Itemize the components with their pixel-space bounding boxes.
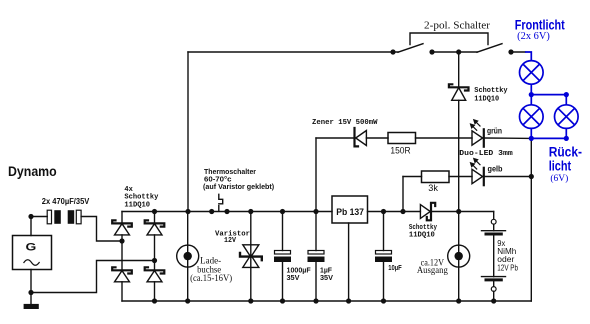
node switch S1a right junction — [429, 49, 434, 54]
svg-text:(auf Varistor geklebt): (auf Varistor geklebt) — [203, 182, 275, 191]
svg-text:2-pol. Schalter: 2-pol. Schalter — [424, 21, 491, 32]
svg-text:G: G — [26, 241, 37, 253]
svg-text:oder: oder — [497, 254, 514, 264]
generator G1 box — [13, 236, 52, 270]
node lamp row1 right junction — [564, 92, 569, 97]
wire bottom rail — [122, 300, 531, 302]
svg-text:35V: 35V — [320, 273, 333, 282]
svg-text:12V: 12V — [224, 237, 236, 245]
battery BT1 cell1 — [482, 230, 506, 232]
node rail thermoswitch left junction — [209, 209, 214, 214]
generator G1 wire bottom — [30, 270, 32, 293]
bridge diode D2 top-right — [145, 212, 165, 271]
schottky D5 cathode bar — [449, 84, 469, 90]
LED D8 gelb arrows — [470, 158, 480, 169]
main rail left section — [122, 211, 332, 213]
svg-text:12V Pb: 12V Pb — [497, 264, 518, 273]
node gnd varistor junction — [248, 298, 253, 303]
svg-text:Dynamo: Dynamo — [8, 164, 57, 179]
wire caps to bridge — [81, 217, 122, 242]
svg-text:(2x 6V): (2x 6V) — [517, 31, 550, 42]
wire switch middle segment — [432, 51, 477, 53]
capacitor C1 plates — [47, 210, 51, 224]
wire zener to R1 — [366, 137, 388, 139]
lamp network blue — [520, 52, 579, 138]
svg-text:3k: 3k — [428, 183, 438, 194]
switch S1 lever b — [477, 44, 502, 53]
bridge diode D3 bottom-left — [112, 267, 132, 301]
capacitor C5 wire bottom — [383, 262, 385, 302]
capacitor C5 10uF wire top — [383, 212, 385, 251]
node rail C3 junction — [280, 209, 285, 214]
battery BT1 lead top — [493, 212, 495, 220]
node lamp row2 left junction — [529, 136, 534, 141]
node rail varistor junction — [248, 209, 253, 214]
wire 3k feed vertical — [402, 177, 404, 212]
svg-text:11DQ10: 11DQ10 — [409, 231, 435, 239]
node switch S1a left junction — [390, 49, 395, 54]
bridge diode D4 bottom-right — [145, 267, 165, 301]
schottky D5 wire down to rail — [458, 100, 460, 211]
svg-text:11DQ10: 11DQ10 — [124, 202, 150, 210]
lamp L3 rear — [555, 105, 579, 129]
node gnd U1 junction — [346, 298, 351, 303]
ground symbol — [24, 304, 39, 309]
capacitor C3 1000uF plates — [275, 251, 291, 255]
node rail bridge plus junction — [152, 209, 157, 214]
switch S1 lever a — [398, 44, 423, 53]
rail Pb137 to diode — [368, 211, 421, 213]
resistor R2 3k body — [422, 171, 450, 183]
generator G1 wire top — [30, 217, 32, 236]
LED D8 gelb triangle — [472, 169, 483, 183]
zener D6 triangle — [356, 131, 367, 146]
svg-text:(6V): (6V) — [550, 173, 568, 184]
wire R1 to LED green — [416, 137, 473, 139]
wire 3k to LED yellow — [449, 176, 472, 178]
svg-text:Zener 15V 500mW: Zener 15V 500mW — [312, 119, 378, 127]
node bridge AC1 junction — [119, 238, 124, 243]
wire 3k feed horizontal — [403, 176, 422, 178]
svg-text:Rück-: Rück- — [549, 145, 582, 160]
wire zener feed vertical — [315, 138, 317, 212]
schottky D5 triangle — [452, 88, 466, 101]
svg-text:Pb 137: Pb 137 — [336, 207, 364, 218]
capacitor C3 wire bottom — [282, 262, 284, 302]
svg-text:Schottky: Schottky — [474, 87, 508, 95]
wire return vertical right — [530, 138, 532, 301]
wire lamp feed — [525, 52, 531, 61]
LED D7 gruen arrows — [470, 120, 480, 131]
svg-text:Duo-LED 3mm: Duo-LED 3mm — [459, 150, 513, 158]
capacitor C3 1000uF wire top — [282, 212, 284, 251]
node rail Ladebuchse junction — [185, 209, 190, 214]
svg-text:Schottky: Schottky — [124, 193, 158, 201]
wire ground rail to bridge — [31, 261, 155, 293]
LED D7 gruen triangle — [472, 131, 483, 145]
svg-text:gelb: gelb — [488, 165, 503, 174]
schottky D9 rail cathode bar — [427, 203, 435, 221]
node gnd bridge junction — [152, 298, 157, 303]
varistor RV1 wire — [250, 212, 252, 302]
capacitor C4 1uF wire top — [315, 212, 317, 251]
node switch diode feed junction — [456, 49, 461, 54]
node rail output junction — [456, 209, 461, 214]
capacitors C1 C2 series wire — [31, 216, 47, 218]
generator G1 sine — [24, 260, 39, 266]
node switch S1b right junction — [508, 49, 513, 54]
lamp L1 front — [520, 61, 544, 85]
node gnd C5 junction — [381, 298, 386, 303]
svg-text:(ca.15-16V): (ca.15-16V) — [190, 273, 232, 284]
node rail thermoswitch right junction — [224, 209, 229, 214]
bridge diode D1 top-left — [112, 212, 132, 271]
regulator U1 ground pin — [348, 223, 350, 301]
capacitor C4 1uF plates — [308, 251, 324, 255]
node LED gelb return junction — [529, 174, 534, 179]
varistor RV1 triangles — [243, 245, 259, 257]
svg-text:11DQ10: 11DQ10 — [474, 95, 499, 103]
capacitor C2 plates — [68, 210, 75, 224]
node bridge AC2 junction — [152, 258, 157, 263]
wire LED yellow to return vertical — [484, 176, 532, 178]
battery BT1 lead bottom — [493, 280, 495, 287]
node dynamo top junction — [28, 214, 33, 219]
wire junction row 1 — [531, 94, 566, 96]
wire junction row 2 — [530, 128, 532, 138]
schottky D9 rail triangle — [420, 205, 430, 219]
jack J1 Ladebuchse circle — [177, 245, 199, 267]
node gnd C3 junction — [280, 298, 285, 303]
battery BT1 mid lead — [493, 234, 495, 277]
varistor RV1 bar — [240, 253, 262, 260]
rail diode to battery corner — [432, 211, 494, 213]
schottky D5 vertical wire top — [458, 52, 460, 87]
jack J2 wire — [458, 212, 460, 302]
switch S1 coupling bracket — [410, 33, 488, 45]
svg-text:35V: 35V — [287, 273, 300, 282]
regulator U1 Pb137 box — [332, 196, 368, 223]
ground wire stub — [30, 293, 32, 304]
svg-text:10µF: 10µF — [388, 263, 402, 272]
thermoswitch tick — [218, 206, 220, 212]
wire L1 to junction — [530, 84, 532, 94]
capacitor C5 10uF plates — [376, 251, 392, 255]
LED D8 gelb cathode bar — [483, 168, 485, 185]
LED D7 gruen cathode bar — [483, 129, 485, 146]
node lamp row2 right junction — [564, 136, 569, 141]
lamp L2 front — [520, 105, 544, 129]
node rail C5 junction — [381, 209, 386, 214]
node gnd battery junction — [491, 298, 496, 303]
node gnd output jack junction — [456, 298, 461, 303]
thermoswitch symbol — [219, 194, 223, 204]
jack J1 Ladebuchse wire top — [187, 212, 189, 302]
svg-text:grün: grün — [487, 127, 502, 136]
svg-text:Ausgang: Ausgang — [417, 266, 448, 276]
wire top feed vertical from rail — [187, 52, 189, 212]
node gnd C4 junction — [313, 298, 318, 303]
node gnd Ladebuchse junction — [185, 298, 190, 303]
capacitor C4 wire bottom — [315, 262, 317, 302]
wire switch right segment — [510, 51, 526, 53]
svg-text:2x 470µF/35V: 2x 470µF/35V — [42, 197, 90, 206]
svg-text:licht: licht — [549, 159, 572, 174]
node dynamo ground junction — [28, 290, 33, 295]
jack J2 Ausgang circle — [448, 245, 470, 267]
battery BT1 cell2 — [482, 276, 506, 278]
wire top feed horizontal — [188, 51, 398, 53]
node rail R2 feed junction — [400, 209, 405, 214]
resistor R1 150R body — [388, 133, 416, 144]
wire LED green to lamps junction — [484, 137, 532, 139]
svg-text:150R: 150R — [390, 146, 410, 157]
wire zener feed horizontal — [316, 137, 355, 139]
zener D6 cathode bar — [355, 128, 359, 146]
node lamp row1 left junction — [529, 92, 534, 97]
node rail C4 junction — [313, 209, 318, 214]
